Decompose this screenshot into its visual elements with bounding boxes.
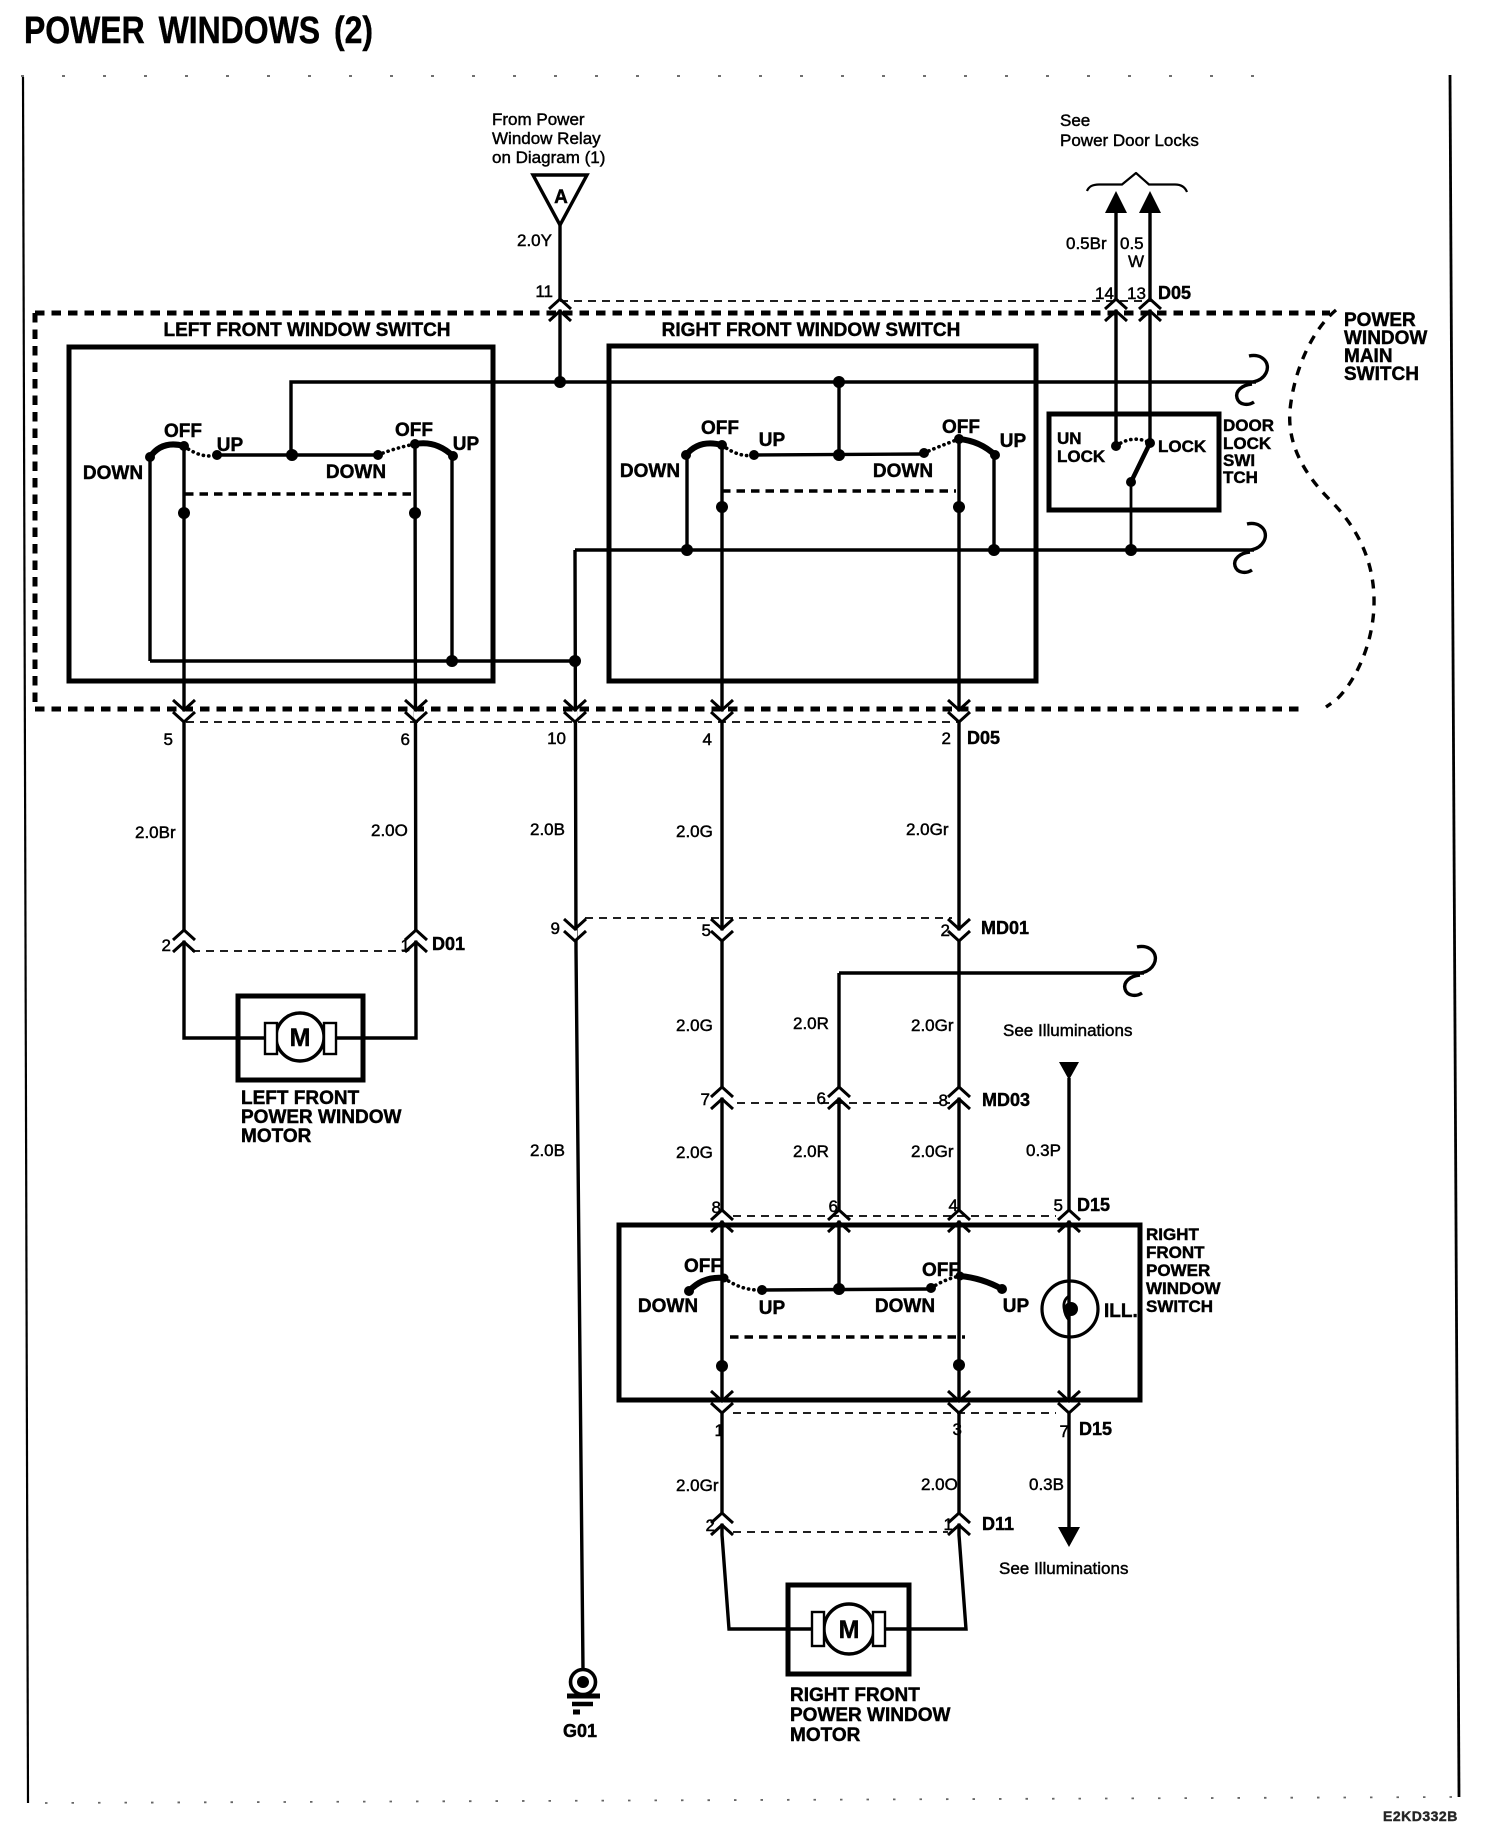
svg-text:7: 7 [1060,1422,1069,1441]
svg-text:2.0O: 2.0O [921,1475,958,1494]
arrow up 0.5W wire [1139,191,1161,213]
svg-text:0.5: 0.5 [1120,234,1144,253]
svg-text:M: M [290,1024,311,1052]
svg-text:D15: D15 [1077,1195,1110,1215]
outer frame left edge [23,77,28,1803]
svg-text:2.0Gr: 2.0Gr [911,1142,954,1161]
bus wire from A across boxes [291,382,1256,455]
mechanical link dashed (left box) [185,492,415,495]
svg-text:OFF: OFF [922,1260,960,1281]
lever arc L2 [415,443,453,456]
power window main switch dashed curve right [1290,310,1374,707]
connector line D01 (thin dashed) [192,950,408,952]
label RIGHT FRONT POWER WINDOW MOTOR [790,1685,950,1746]
wire 0.3P illumination [1067,1078,1070,1527]
contact dot B1 down [684,1286,694,1296]
wire UP1 to DOWN2 (bottom box) [762,1289,931,1290]
svg-text:LEFT FRONT: LEFT FRONT [241,1088,360,1109]
connector pin 11 [549,299,571,321]
svg-text:8: 8 [939,1091,948,1110]
svg-text:2.0G: 2.0G [676,1016,713,1035]
svg-text:D15: D15 [1079,1419,1112,1439]
connector D11 pin 1 [948,1513,970,1535]
dotted throw L1 to UP [184,446,217,456]
contact dot B1 up [757,1285,767,1295]
svg-text:DOOR: DOOR [1223,416,1274,435]
right front window switch box [609,346,1036,681]
connector D15 pin 1 [711,1391,733,1413]
svg-text:DOWN: DOWN [326,462,386,483]
junction wire661/up2 [446,655,458,667]
svg-text:2: 2 [941,921,950,940]
svg-text:OFF: OFF [701,418,739,439]
lamp filament jog [1064,1296,1069,1320]
svg-text:POWER WINDOWS (2): POWER WINDOWS (2) [24,10,373,52]
svg-text:2.0Gr: 2.0Gr [906,820,949,839]
svg-text:MD01: MD01 [981,918,1029,938]
svg-text:LEFT FRONT WINDOW SWITCH: LEFT FRONT WINDOW SWITCH [163,320,450,341]
svg-text:UP: UP [759,430,786,451]
svg-text:5: 5 [164,730,173,749]
right switch 2 [873,417,1027,482]
svg-text:2.0R: 2.0R [793,1014,829,1033]
right switch 1 [620,418,786,482]
lever arc B2 [960,1276,1002,1289]
node dot on pin5 wire [178,507,190,519]
connector MD01 pin 9 [564,919,586,941]
connector MD01 pin 5 [711,919,733,941]
connector D05 pin 6 [405,700,427,722]
motor M2 left brush tab [812,1612,824,1646]
svg-text:2.0Gr: 2.0Gr [911,1016,954,1035]
motor M1 left brush tab [265,1023,277,1054]
svg-text:2.0Br: 2.0Br [135,823,176,842]
junction wire661/pin10 [569,655,581,667]
svg-text:D05: D05 [1158,283,1191,303]
connector line MD03 (thin dashed) [737,1102,950,1104]
label POWER WINDOW MAIN SWITCH [1344,310,1427,385]
svg-text:LOCK: LOCK [1057,447,1106,466]
svg-text:2.0O: 2.0O [371,821,408,840]
svg-text:G01: G01 [563,1721,597,1741]
svg-text:DOWN: DOWN [83,463,143,484]
wire L1 down-contact to wire661 [148,457,151,661]
svg-text:4: 4 [949,1196,958,1215]
wire L1 pivot to pin 5 / left motor [184,446,265,1038]
junction bus / A wire [554,376,566,388]
left switch 1 (driver window) [83,421,244,484]
contact dot unlock [1111,441,1121,451]
connector line D15 top (thin dashed) [733,1215,1056,1217]
svg-text:POWER WINDOW: POWER WINDOW [241,1107,401,1128]
svg-text:OFF: OFF [684,1256,722,1277]
wire L2 pivot to pin 6 / left motor [336,444,416,1038]
svg-text:D05: D05 [967,728,1000,748]
svg-text:D01: D01 [432,934,465,954]
node dot on pin2 wire [953,501,965,513]
label DOOR LOCK SWITCH [1223,416,1274,487]
pivot dot R2 [954,434,964,444]
svg-text:6: 6 [829,1197,838,1216]
svg-text:2.0G: 2.0G [676,1143,713,1162]
connector D01 pin 1 [405,930,427,952]
svg-text:3: 3 [953,1420,962,1439]
wire from triangle A down to bus [558,225,561,382]
svg-text:M: M [839,1616,860,1644]
connector D11 pin 2 [711,1513,733,1535]
wire UP1 to DOWN2 (left box) [217,453,378,456]
svg-text:FRONT: FRONT [1146,1243,1205,1262]
svg-text:6: 6 [401,730,410,749]
right front power window motor box [788,1585,909,1674]
svg-text:WINDOW: WINDOW [1146,1279,1222,1298]
svg-text:1: 1 [401,936,410,955]
svg-text:W: W [1128,252,1144,271]
svg-text:ILL.: ILL. [1104,1301,1138,1322]
lever arc L1 [150,444,184,457]
dotted throw R2 to DOWN [924,439,959,453]
svg-text:UP: UP [217,435,244,456]
motor M2 circle [824,1604,874,1654]
contact dot L2 down [373,450,383,460]
svg-text:2.0B: 2.0B [530,820,565,839]
svg-text:A: A [554,187,568,208]
svg-text:11: 11 [535,282,553,301]
lever arc R1 [686,443,722,455]
svg-text:2.0Y: 2.0Y [517,231,552,250]
svg-text:10: 10 [547,729,566,748]
motor M2 right brush tab [873,1612,885,1646]
svg-text:2: 2 [162,936,171,955]
svg-text:POWER: POWER [1146,1261,1210,1280]
connector line D11 (thin dashed) [733,1531,948,1533]
wire door lock lever to wire550 [1130,482,1133,550]
svg-text:DOWN: DOWN [620,461,680,482]
svg-text:UP: UP [759,1298,786,1319]
hook wire continues (973 right end) [1125,946,1156,995]
svg-text:0.3P: 0.3P [1026,1141,1061,1160]
arrow to illuminations (down) [1058,1527,1080,1547]
wire bus drop to center contact (right box) [837,382,840,455]
junction center contact [833,449,845,461]
svg-text:RIGHT: RIGHT [1146,1225,1200,1244]
junction bus / right switch feed [833,376,845,388]
contact dot R2 down [919,448,929,458]
node dot on pin6 wire [409,507,421,519]
wire R2 pivot down to right switch and motor [884,439,966,1629]
svg-text:See Illuminations: See Illuminations [999,1559,1128,1578]
lamp filament bead [1064,1302,1078,1316]
svg-text:TCH: TCH [1223,468,1258,487]
connector MD03 pin 7 [711,1087,733,1109]
svg-text:OFF: OFF [395,420,433,441]
wire R1 down-contact to wire550 [685,455,688,550]
lamp ILL circle [1042,1281,1098,1337]
connector MD03 pin 6 [828,1087,850,1109]
svg-text:See: See [1060,111,1090,130]
svg-text:UN: UN [1057,429,1082,448]
left front window switch box [69,347,493,681]
node dot on pin3 wire [953,1359,965,1371]
wire 661 across left box [150,659,575,662]
contact dot B2 up end [997,1284,1007,1294]
hook wire continues (bus right end) [1237,355,1268,404]
bottom switch 1 [638,1256,786,1319]
mechanical link dashed (right box) [722,489,956,492]
svg-text:7: 7 [701,1090,710,1109]
svg-text:5: 5 [702,921,711,940]
svg-text:0.5Br: 0.5Br [1066,234,1107,253]
contact dot lock [1145,438,1155,448]
lever arc R2 [959,439,995,455]
svg-text:2.0Gr: 2.0Gr [676,1476,719,1495]
svg-text:0.3B: 0.3B [1029,1475,1064,1494]
label UN LOCK [1057,429,1106,466]
svg-text:See Illuminations: See Illuminations [1003,1021,1132,1040]
dotted throw B1 to UP [724,1278,762,1290]
connector D15 pin 8 [711,1210,733,1232]
dotted throw L2 to DOWN [378,444,415,455]
connector D05 pin 2 [948,700,970,722]
pivot dot B1 [720,1274,729,1283]
contact dot B2 down [926,1283,936,1293]
hook wire continues (550 right end) [1235,523,1266,572]
power window main switch dashed box top [35,311,1330,316]
power window main switch dashed box bottom [35,707,1300,712]
svg-text:MOTOR: MOTOR [241,1126,312,1147]
contact dot R2 up [990,450,1000,460]
wire 550 across to hook [575,548,1254,551]
label RIGHT FRONT POWER WINDOW SWITCH [1146,1225,1222,1316]
wire R2 up-contact to wire550 [992,455,995,550]
connector line D15 bottom (thin dashed) [733,1412,1056,1414]
dotted throw B2 to DOWN [931,1276,960,1288]
door lock switch box [1049,414,1219,510]
brace over door lock wires [1087,173,1187,192]
lever arc B1 [689,1278,724,1291]
svg-text:2.0B: 2.0B [530,1141,565,1160]
pivot dot R1 [717,440,727,450]
connector line MD01 (thin dashed) [585,917,952,919]
svg-text:DOWN: DOWN [875,1296,935,1317]
svg-text:2.0R: 2.0R [793,1142,829,1161]
pivot dot L1 [179,441,189,451]
svg-text:OFF: OFF [942,417,980,438]
svg-text:6: 6 [817,1089,826,1108]
svg-text:E2KD332B: E2KD332B [1383,1808,1458,1824]
svg-text:OFF: OFF [164,421,202,442]
svg-text:9: 9 [551,919,560,938]
wire L2 up-contact down [450,456,453,661]
svg-text:UP: UP [1003,1296,1030,1317]
pivot dot door lock [1126,477,1136,487]
wire 0.5W to door lock switch [1148,211,1151,443]
motor M1 right brush tab [324,1023,336,1054]
connector pin 13 [1139,299,1161,321]
node dot on pin1 wire [716,1360,728,1372]
right front power window switch box [619,1225,1140,1400]
connector MD01 pin 2 [948,919,970,941]
pivot dot B2 [956,1272,965,1281]
contact dot R1 up [749,450,759,460]
svg-text:LOCK: LOCK [1158,437,1207,456]
svg-text:2: 2 [942,729,951,748]
svg-text:DOWN: DOWN [873,461,933,482]
svg-text:D11: D11 [982,1514,1014,1534]
svg-text:8: 8 [712,1198,721,1217]
label LEFT FRONT POWER WINDOW MOTOR [241,1088,401,1147]
svg-text:POWER WINDOW: POWER WINDOW [790,1705,950,1726]
wire UP1 to DOWN2 (right box) [754,454,924,455]
contact dot L2 up [448,451,458,461]
outer frame top edge (faint) [21,75,1290,77]
arrow up 0.5Br wire [1105,191,1127,213]
wire R1 pivot down to right switch and motor [722,445,814,1629]
connector D15 pin 3 [948,1391,970,1413]
svg-text:1: 1 [944,1515,953,1534]
wire 2.0R vertical to right switch [837,973,840,1289]
svg-text:MOTOR: MOTOR [790,1725,861,1746]
ground G01 symbol [567,1670,600,1713]
motor M1 circle [276,1013,324,1061]
svg-text:Power Door Locks: Power Door Locks [1060,131,1199,150]
bottom switch 2 [875,1260,1030,1317]
svg-text:From Power: From Power [492,110,585,129]
svg-text:MD03: MD03 [982,1090,1030,1110]
contact dot R1 down [681,450,691,460]
junction 550/687 [681,544,693,556]
contact dot L1 down [145,452,155,462]
svg-text:RIGHT FRONT: RIGHT FRONT [790,1685,920,1706]
triangle A (from power window relay) [533,175,587,225]
svg-text:DOWN: DOWN [638,1296,698,1317]
svg-text:RIGHT FRONT WINDOW SWITCH: RIGHT FRONT WINDOW SWITCH [662,320,961,341]
connector D15 pin 6 [828,1210,850,1232]
junction 550/door lock lever [1125,544,1137,556]
dotted throw R1 to UP [722,445,754,456]
junction center (bottom box) [833,1283,845,1295]
junction 550/994 [988,544,1000,556]
connector line (thin dashed) below main switch [186,721,958,723]
svg-text:UP: UP [1000,431,1027,452]
outer frame bottom edge (faint) [45,1797,1455,1803]
door lock lever [1131,443,1150,482]
node dot on pin4 wire [716,501,728,513]
arrow from illuminations (down) [1059,1062,1079,1080]
connector line D05 (thin dashed) [560,300,1153,302]
connector D01 pin 2 [173,930,195,952]
connector MD03 pin 8 [948,1087,970,1109]
connector D15 pin 5 [1058,1210,1080,1232]
left front power window motor box [238,996,363,1080]
svg-text:1: 1 [715,1421,724,1440]
connector D15 pin 7 [1058,1391,1080,1413]
mechanical link dashed (bottom box) [730,1335,965,1338]
dotted throw door lock [1116,439,1150,446]
connector D05 pin 10 [564,700,586,722]
contact dot L1 up [212,450,222,460]
svg-text:on Diagram (1): on Diagram (1) [492,148,605,167]
svg-text:Window Relay: Window Relay [492,129,601,148]
svg-text:2.0G: 2.0G [676,822,713,841]
svg-text:UP: UP [453,434,480,455]
svg-text:2: 2 [706,1516,715,1535]
junction wire456/bus drop [286,449,298,461]
wire 2.0R horizontal from hook [839,971,1144,974]
outer frame right edge [1450,75,1459,1797]
power window main switch dashed box left [33,313,38,709]
connector D05 pin 4 [711,700,733,722]
svg-text:5: 5 [1054,1196,1063,1215]
pivot dot L2 [410,439,420,449]
left switch 2 [326,420,480,483]
wire 0.5Br to door lock switch [1114,211,1117,446]
connector pin 14 [1105,299,1127,321]
connector D05 pin 5 [173,700,195,722]
svg-text:4: 4 [703,730,712,749]
ground wire 2.0B long vertical [575,550,583,1670]
connector D15 pin 4 [948,1210,970,1232]
svg-text:SWITCH: SWITCH [1344,364,1419,385]
svg-text:SWITCH: SWITCH [1146,1297,1213,1316]
